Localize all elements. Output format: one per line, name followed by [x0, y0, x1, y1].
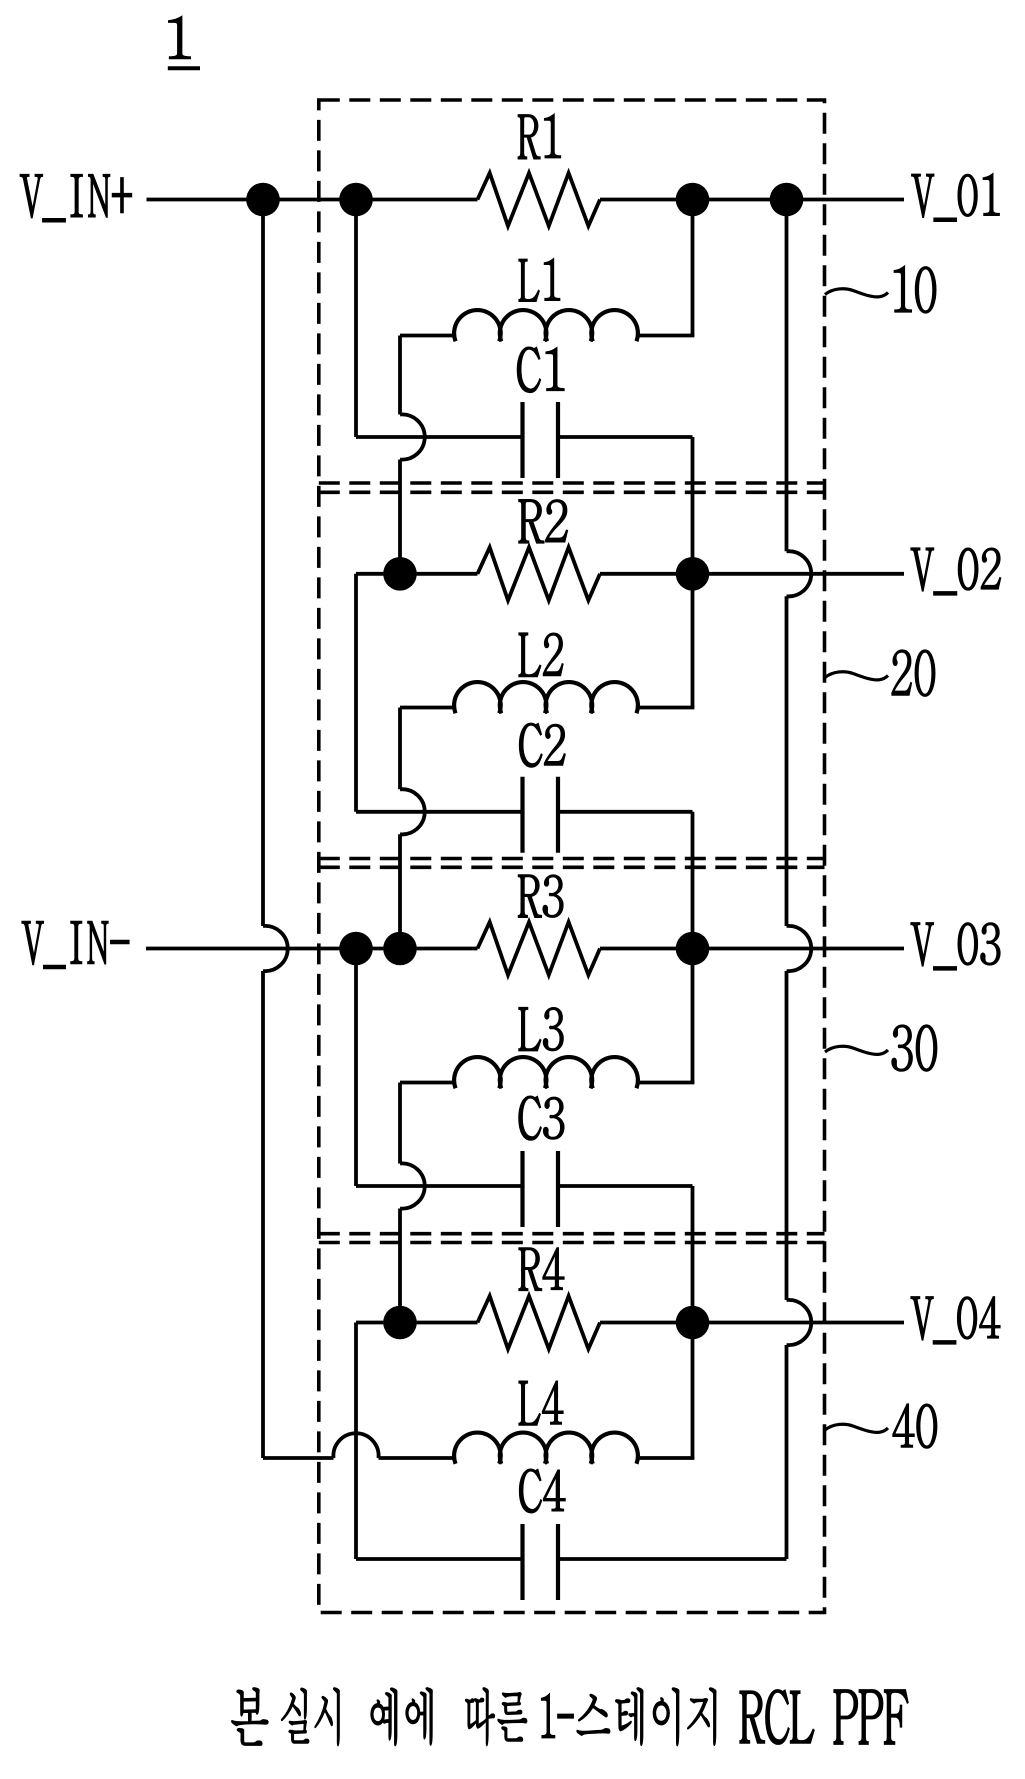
label V_01: [912, 174, 1000, 221]
node V_02 junction at column D: [676, 557, 710, 591]
node V_04 junction at column D: [676, 1306, 710, 1340]
wire hop where column A crosses V_IN- rail: [263, 926, 288, 971]
leader squiggle for stage 10: [825, 289, 888, 297]
wire column C stage1 upper (L1 lead down to C1 hop): [398, 336, 402, 415]
wire column C stage3 lower (hop down to R4 node): [398, 1209, 402, 1323]
wire hop where column E crosses V_02 rail: [787, 551, 812, 596]
label L3: [519, 1008, 563, 1051]
inductor L1 coil: [454, 310, 638, 341]
wire column D: C2 wire down to R3 right node: [691, 812, 695, 949]
wire hop where column C crosses C2 wire: [400, 789, 425, 834]
caption word 예에: [371, 1688, 432, 1745]
wire hop where L4 lead crosses column B: [333, 1433, 378, 1458]
node V_01 junction at column E: [770, 183, 804, 217]
wire V_IN+ rail left segment: [147, 198, 478, 202]
stage 30/40 dashed boundary upper: [319, 1232, 825, 1236]
node R3 left junction: [383, 932, 417, 966]
label C1: [517, 347, 564, 392]
stage 30/40 dashed boundary lower: [319, 1241, 825, 1245]
wire L3 right lead: [637, 1081, 695, 1085]
dashed outer box of filter: [319, 100, 825, 1613]
leader squiggle for stage 30: [825, 1046, 888, 1054]
wire column B stage1 (V_IN+ node down to C1 wire): [354, 200, 358, 438]
wire hop where column E crosses V_03 rail: [787, 926, 812, 971]
underline of figure reference numeral 1: [168, 66, 200, 70]
wire rail4 right segment to V_04: [600, 1321, 904, 1325]
wire L2 right lead: [637, 706, 695, 710]
caption word PPF: [834, 1690, 908, 1744]
node V_01 junction at column D: [676, 183, 710, 217]
label R2: [519, 500, 567, 543]
caption word 본: [232, 1688, 268, 1745]
wire L2 left lead: [400, 706, 455, 710]
wire hop where column C crosses C3 wire: [400, 1163, 425, 1208]
resistor R4: [478, 1296, 601, 1349]
resistor R3: [478, 922, 601, 975]
label R1: [518, 114, 560, 158]
wire column D: C3 wire down to R4 right node: [691, 1186, 695, 1323]
wire rail2 left segment: [356, 572, 478, 576]
node R4 left junction: [383, 1306, 417, 1340]
wire hop where column C crosses C1 wire: [400, 414, 425, 459]
label V_02: [911, 548, 1001, 595]
label stage number 40: [893, 1404, 937, 1448]
wire column D: V_01 node down to L1 lead: [691, 200, 695, 336]
wire L4 left lead from column A with gap at hop: [263, 1456, 334, 1460]
wire L1 left lead: [400, 334, 455, 338]
label stage number 20: [892, 650, 935, 696]
resistor R1: [478, 173, 601, 226]
wire column D: R2 right node down to L2 lead: [691, 574, 695, 708]
wire column B stage3 (V_IN- node down to C3 wire): [354, 949, 358, 1187]
wire column C stage3 upper (L3 lead down to C3 hop): [398, 1083, 402, 1164]
wire column E segment 4 (down to C4 right wire): [785, 1345, 789, 1559]
label V_IN-: [22, 922, 129, 969]
wire column D: C1 wire down to R2 right node: [691, 437, 695, 574]
wire L1 right lead: [637, 334, 695, 338]
wire column C stage1 lower (hop down to R2 node): [398, 460, 402, 574]
wire rail3 right segment to V_03: [600, 947, 904, 951]
stage 20/30 dashed boundary upper: [319, 857, 825, 861]
label L2: [519, 633, 563, 676]
stage 10/20 dashed boundary lower: [319, 490, 825, 494]
wire column A upper (V_IN+ node down to V_IN- crossing): [261, 200, 265, 927]
label V_IN+: [20, 175, 131, 222]
label C2: [520, 723, 566, 767]
caption word 따른: [465, 1688, 527, 1745]
wire column B stage4 (rail4 corner down to C4 wire): [354, 1323, 358, 1560]
leader squiggle for stage 40: [825, 1424, 888, 1432]
node V_03 junction at column D: [676, 932, 710, 966]
label R4: [519, 1248, 564, 1290]
wire column C stage2 lower (hop down to R3 node): [398, 834, 402, 948]
node V_IN+ junction at column A: [246, 183, 280, 217]
caption word RCL: [740, 1690, 814, 1744]
wire column E segment 2: [785, 596, 789, 926]
wire L4 right lead: [637, 1456, 695, 1460]
wire column E segment 1 (V_01 node down to V_02 crossing): [785, 200, 789, 552]
inductor L3 coil: [454, 1057, 638, 1088]
wire column A lower (down to L4 lead corner): [261, 971, 265, 1458]
wire column D: R3 right node down to L3 lead: [691, 949, 695, 1083]
wire rail2 right segment to V_02: [600, 572, 904, 576]
wire column C stage2 upper (L2 lead down to C2 hop): [398, 708, 402, 790]
capacitor C4: [356, 1524, 787, 1600]
label C3: [519, 1096, 564, 1140]
label L4: [519, 1381, 563, 1425]
wire V_IN- rail left segment: [146, 947, 478, 951]
stage 20/30 dashed boundary lower: [319, 865, 825, 869]
leader squiggle for stage 20: [825, 672, 888, 680]
capacitor C2: [356, 777, 693, 853]
inductor L4 coil: [454, 1433, 638, 1464]
node R2 left junction: [383, 557, 417, 591]
caption word 1-스테이지: [541, 1688, 715, 1745]
label V_04: [911, 1297, 1000, 1344]
label C4: [520, 1469, 566, 1512]
wire column E segment 3: [785, 971, 789, 1300]
label stage number 30: [892, 1025, 937, 1071]
label V_03: [911, 923, 1000, 970]
caption word 실시: [281, 1688, 339, 1746]
node V_IN- junction at column B: [339, 932, 373, 966]
label R3: [518, 875, 563, 917]
wire column B stage2 (rail2 corner down to C2 wire): [354, 574, 358, 812]
wire L3 left lead: [400, 1081, 455, 1085]
wire hop where column E crosses V_04 rail: [787, 1300, 812, 1345]
node V_IN+ junction at column B: [339, 183, 373, 217]
wire L4 left lead continuing to coil: [379, 1456, 456, 1460]
figure reference numeral 1: [169, 17, 190, 59]
label L1: [519, 259, 560, 301]
wire column D: R4 right node down to L4 lead: [691, 1323, 695, 1459]
stage 10/20 dashed boundary upper: [319, 481, 825, 485]
inductor L2 coil: [454, 682, 638, 713]
wire V_IN+ rail right segment to V_01: [600, 198, 904, 202]
capacitor C1: [356, 402, 693, 478]
wire rail4 left segment: [356, 1321, 478, 1325]
resistor R2: [478, 547, 601, 600]
capacitor C3: [356, 1151, 693, 1227]
label stage number 10: [894, 266, 936, 313]
